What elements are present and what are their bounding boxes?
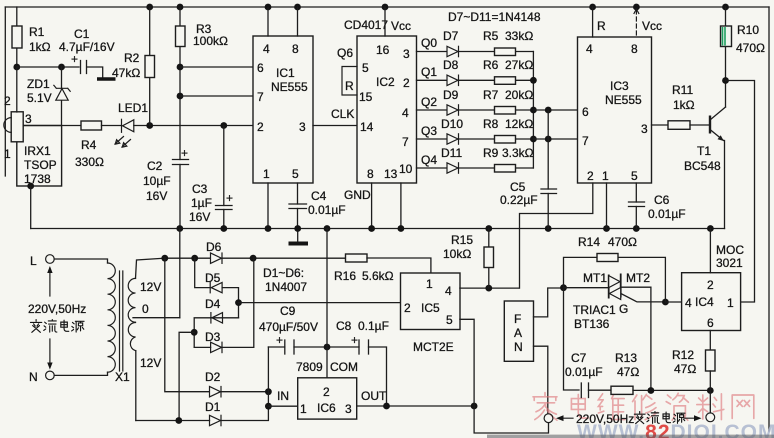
- resistor R8: [483, 117, 533, 143]
- svg-text:20kΩ: 20kΩ: [505, 88, 533, 102]
- svg-text:4.7µF/16V: 4.7µF/16V: [59, 40, 115, 54]
- svg-text:D3: D3: [205, 330, 221, 344]
- svg-text:F: F: [514, 312, 521, 326]
- svg-text:4: 4: [402, 106, 409, 120]
- wire: [690, 124, 710, 126]
- wire Q0 row: [417, 51, 534, 53]
- diode D6: [206, 240, 222, 263]
- svg-text:NE555: NE555: [605, 93, 642, 107]
- wire: [267, 7, 269, 36]
- node (R3 top on Vcc): [177, 4, 184, 11]
- svg-text:4: 4: [263, 42, 270, 56]
- resistor R11: [668, 83, 695, 129]
- svg-text:4: 4: [445, 284, 452, 298]
- svg-text:220V,50Hz: 220V,50Hz: [576, 412, 634, 426]
- svg-text:Q3: Q3: [421, 124, 437, 138]
- svg-text:C4: C4: [311, 189, 327, 203]
- wire IC1 pin1 to gnd: [267, 183, 269, 229]
- svg-text:0.01µF: 0.01µF: [648, 207, 686, 221]
- svg-text:C7: C7: [571, 351, 587, 365]
- svg-text:47Ω: 47Ω: [674, 362, 696, 376]
- wire 0-tap to gnd bus: [179, 229, 181, 318]
- svg-text:LED1: LED1: [118, 101, 148, 115]
- resistor R15: [443, 229, 494, 289]
- wire IC4 pin2 to gnd bus: [709, 229, 711, 273]
- wire gnd stub: [297, 229, 299, 242]
- svg-text:10kΩ: 10kΩ: [443, 247, 471, 261]
- svg-text:R13: R13: [615, 351, 637, 365]
- svg-text:100kΩ: 100kΩ: [193, 34, 228, 48]
- node (R12 bottom): [707, 387, 714, 394]
- svg-text:330Ω: 330Ω: [75, 155, 104, 169]
- svg-text:0: 0: [142, 302, 149, 316]
- wire D3 row: [194, 258, 254, 347]
- svg-text:GND: GND: [344, 188, 371, 202]
- svg-text:10µF: 10µF: [143, 174, 171, 188]
- svg-text:12V: 12V: [140, 280, 161, 294]
- svg-text:BT136: BT136: [574, 317, 610, 331]
- svg-text:MT2: MT2: [626, 271, 650, 285]
- svg-text:Q0: Q0: [421, 36, 437, 50]
- svg-text:2: 2: [707, 278, 714, 292]
- svg-text:3: 3: [25, 112, 32, 126]
- wire Q2 row: [417, 109, 534, 111]
- svg-text:R5: R5: [483, 29, 499, 43]
- node (pin7 junction): [177, 93, 184, 100]
- wire IC4 pin6 to R12: [709, 331, 711, 351]
- svg-text:4: 4: [685, 296, 692, 310]
- svg-text:1: 1: [727, 296, 734, 310]
- svg-text:D4: D4: [205, 297, 221, 311]
- wire top tap rail: [165, 257, 346, 259]
- svg-text:R: R: [345, 79, 354, 93]
- wire: [297, 7, 299, 36]
- node (R10 top Vcc): [722, 4, 729, 11]
- mains source label with arrows: [28, 266, 86, 370]
- svg-text:R2: R2: [124, 51, 140, 65]
- svg-text:1: 1: [426, 277, 433, 291]
- wire: [589, 389, 612, 391]
- svg-text:C5: C5: [510, 180, 526, 194]
- reset box R (IC2 pins 5-15): [337, 46, 357, 95]
- svg-text:C1: C1: [74, 27, 90, 41]
- node (C5 line pin7): [545, 136, 552, 143]
- svg-text:D1~D6:: D1~D6:: [263, 266, 304, 280]
- svg-text:0.1µF: 0.1µF: [358, 319, 389, 333]
- svg-text:IC1: IC1: [276, 66, 295, 80]
- node (C5 top): [545, 107, 552, 114]
- svg-text:R1: R1: [29, 25, 45, 39]
- diode D4: [205, 297, 223, 323]
- svg-text:CD4017: CD4017: [344, 18, 388, 32]
- svg-text:R10: R10: [737, 23, 759, 37]
- svg-text:CLK: CLK: [331, 107, 354, 121]
- node (R3 to IC1 pin6 wire): [177, 64, 184, 71]
- svg-text:0.01µF: 0.01µF: [308, 203, 346, 217]
- svg-text:IC2: IC2: [376, 75, 395, 89]
- svg-text:+: +: [276, 333, 283, 347]
- svg-text:470Ω: 470Ω: [736, 41, 765, 55]
- node (MT2 bottom): [648, 387, 655, 394]
- ground (main): [289, 242, 309, 246]
- ground: [97, 77, 116, 80]
- svg-text:D2: D2: [205, 370, 221, 384]
- svg-text:Vcc: Vcc: [642, 19, 662, 33]
- capacitor C3: [189, 126, 233, 229]
- resistor R10 (green tinted): [721, 7, 766, 107]
- wire gate: [622, 294, 666, 302]
- transformer X1 core: [120, 271, 123, 371]
- capacitor C5: [500, 110, 557, 229]
- regulator IC6 7809: [296, 360, 358, 419]
- diode D2: [205, 370, 221, 397]
- svg-text:OUT: OUT: [361, 389, 387, 403]
- svg-text:6: 6: [582, 105, 589, 119]
- wire IC3 pin3: [652, 124, 669, 126]
- node (IC1 pin4 Vcc): [265, 4, 272, 11]
- svg-text:C9: C9: [280, 304, 296, 318]
- svg-text:T1: T1: [697, 144, 711, 158]
- svg-text:+: +: [71, 52, 78, 66]
- wire junction to bottom rail: [179, 332, 194, 420]
- net label D1~D6 1N4007: [263, 266, 307, 294]
- svg-text:470µF/50V: 470µF/50V: [259, 320, 318, 334]
- svg-text:X1: X1: [115, 370, 130, 384]
- wire pin3 line: [23, 125, 81, 127]
- resistor R7: [483, 88, 533, 114]
- svg-text:1N4007: 1N4007: [265, 280, 307, 294]
- diode D7: [443, 29, 459, 57]
- resistor R9: [483, 146, 534, 172]
- wire IC3 pin2 to opto: [520, 183, 593, 288]
- svg-text:C2: C2: [147, 159, 163, 173]
- svg-text:8: 8: [631, 42, 638, 56]
- svg-text:2: 2: [257, 120, 264, 134]
- terminal mains N (bottom right): [706, 413, 715, 422]
- wire IC5 pin5 to OUT: [460, 319, 474, 406]
- wire IC1 pin7: [180, 95, 253, 97]
- capacitor C2: [143, 146, 189, 229]
- svg-text:3: 3: [641, 122, 648, 136]
- svg-text:Q1: Q1: [421, 65, 437, 79]
- svg-text:L: L: [30, 254, 37, 268]
- node (R2 bottom): [146, 122, 153, 129]
- wire Q3 row: [417, 138, 534, 140]
- svg-text:47kΩ: 47kΩ: [112, 66, 140, 80]
- svg-text:R8: R8: [483, 117, 499, 131]
- resistor R13: [611, 351, 639, 394]
- svg-text:2: 2: [404, 301, 411, 315]
- svg-text:+: +: [181, 146, 188, 160]
- wire Q1 row: [417, 79, 534, 81]
- svg-text:16: 16: [376, 43, 390, 57]
- wire FAN bottom to mains L: [534, 346, 548, 413]
- fan load FAN: [504, 301, 533, 361]
- wire MT1: [564, 287, 609, 289]
- svg-text:2: 2: [4, 94, 11, 108]
- svg-text:Q4: Q4: [421, 153, 437, 167]
- svg-text:16V: 16V: [146, 189, 167, 203]
- svg-text:1kΩ: 1kΩ: [29, 40, 51, 54]
- wire FAN top to triac MT1 line: [534, 288, 564, 317]
- svg-text:D7~D11=1N4148: D7~D11=1N4148: [448, 10, 541, 24]
- svg-text:470Ω: 470Ω: [608, 235, 637, 249]
- node (OUT to bottom link): [471, 403, 478, 410]
- svg-text:MOC: MOC: [716, 243, 744, 257]
- wire D5 right leg: [222, 288, 238, 318]
- node (D2 branch): [161, 255, 168, 262]
- svg-text:6: 6: [257, 61, 264, 75]
- svg-text:1: 1: [263, 167, 270, 181]
- wire R16 to IC5 pin1: [367, 258, 431, 273]
- wire Vcc dashed to IC3 pin8: [635, 10, 637, 37]
- wire MT2: [621, 287, 651, 390]
- diode D9: [443, 88, 459, 115]
- svg-text:14: 14: [360, 120, 374, 134]
- LED LED1: [115, 101, 148, 147]
- svg-text:N: N: [514, 340, 523, 354]
- wire: [134, 125, 253, 127]
- svg-text:D1: D1: [205, 400, 221, 414]
- svg-text:10: 10: [399, 162, 413, 176]
- svg-text:IN: IN: [277, 389, 289, 403]
- svg-text:6: 6: [707, 316, 714, 330]
- svg-text:C3: C3: [192, 182, 208, 196]
- svg-text:D9: D9: [443, 88, 459, 102]
- svg-text:+: +: [351, 333, 358, 347]
- svg-text:D6: D6: [206, 240, 222, 254]
- wire collector to IC4 pin1: [726, 81, 755, 303]
- svg-text:R14: R14: [578, 235, 600, 249]
- resistor R4: [75, 121, 104, 169]
- svg-text:1µF: 1µF: [191, 196, 212, 210]
- IR receiver IRX1 TSOP1738: [4, 67, 62, 186]
- svg-text:Vcc: Vcc: [391, 19, 411, 33]
- svg-text:0.22µF: 0.22µF: [500, 193, 538, 207]
- capacitor C6: [629, 183, 686, 229]
- wire IC3 pin4: [592, 7, 594, 37]
- wire D2 out: [221, 391, 268, 393]
- capacitor C4: [289, 183, 346, 229]
- svg-text:MCT2E: MCT2E: [413, 340, 454, 354]
- unreg rail / C9 C8 line: [268, 347, 386, 406]
- wire IC3 pin1: [606, 183, 608, 229]
- svg-text:12V: 12V: [140, 356, 161, 370]
- wire IC2 pin13 to gnd: [400, 183, 402, 229]
- node (gate/R14/IC4 pin4): [662, 299, 669, 306]
- wire D4 left leg: [194, 318, 238, 348]
- svg-text:D5: D5: [205, 271, 221, 285]
- svg-text:IRX1: IRX1: [24, 144, 51, 158]
- svg-text:ZD1: ZD1: [27, 77, 50, 91]
- wire CLK: [313, 125, 357, 127]
- diode D5: [205, 271, 222, 293]
- svg-text:33kΩ: 33kΩ: [505, 29, 533, 43]
- transformer X1 primary: [54, 259, 115, 375]
- node (R15 bottom): [485, 285, 492, 292]
- node (R2 top on Vcc): [146, 4, 153, 11]
- wire IRX1 to ground bus: [30, 186, 32, 229]
- wire IC5 pin4 line: [460, 287, 519, 289]
- svg-text:3.3kΩ: 3.3kΩ: [502, 146, 534, 160]
- node (D3 anode junction): [191, 329, 198, 336]
- svg-text:NE555: NE555: [271, 80, 308, 94]
- svg-text:BC548: BC548: [684, 159, 721, 173]
- svg-text:R9: R9: [483, 146, 499, 160]
- wire OUT line: [357, 405, 474, 407]
- wire to D2: [165, 258, 210, 392]
- capacitor C9: [259, 304, 318, 354]
- wire: [102, 125, 122, 127]
- diode D11: [441, 146, 462, 173]
- svg-text:R16: R16: [334, 269, 356, 283]
- capacitor C7: [565, 351, 603, 398]
- svg-text:7: 7: [257, 90, 264, 104]
- scan edge band bottom right: [487, 435, 774, 438]
- diode D1: [205, 400, 221, 426]
- svg-text:5: 5: [631, 169, 638, 183]
- svg-text:5.1V: 5.1V: [27, 91, 52, 105]
- svg-text:C8: C8: [336, 319, 352, 333]
- diode D10: [441, 117, 463, 144]
- svg-text:1: 1: [4, 147, 11, 161]
- svg-text:D7: D7: [443, 29, 459, 43]
- svg-text:13: 13: [384, 167, 398, 181]
- node (IC1 pin8 Vcc): [294, 4, 301, 11]
- terminal L: [30, 254, 54, 268]
- timer IC3 NE555: [578, 37, 652, 183]
- svg-text:0.01µF: 0.01µF: [565, 365, 603, 379]
- counter IC2 CD4017: [344, 18, 417, 183]
- resistor R5: [483, 29, 533, 56]
- resistor R12: [672, 348, 715, 391]
- wire to IC3 pin7: [533, 138, 577, 140]
- wire R13 to R12 node: [633, 389, 710, 391]
- resistor R3: [176, 7, 229, 160]
- svg-text:R4: R4: [81, 138, 97, 152]
- svg-text:TRIAC1: TRIAC1: [573, 303, 616, 317]
- wire to mains N terminal: [709, 391, 711, 413]
- optocoupler IC5 MCT2E: [401, 273, 461, 354]
- triac TRIAC1 BT136: [573, 271, 650, 331]
- svg-text:Q2: Q2: [421, 95, 437, 109]
- svg-text:5: 5: [292, 167, 299, 181]
- svg-text:IC6: IC6: [317, 401, 336, 415]
- svg-text:D11: D11: [441, 146, 462, 160]
- svg-text:8: 8: [292, 42, 299, 56]
- svg-text:12kΩ: 12kΩ: [505, 117, 533, 131]
- svg-text:27kΩ: 27kΩ: [505, 58, 533, 72]
- svg-text:15: 15: [359, 90, 373, 104]
- wire Q4 row: [417, 167, 534, 169]
- svg-text:MT1: MT1: [583, 271, 607, 285]
- svg-text:1: 1: [300, 402, 307, 416]
- terminal N: [29, 370, 54, 384]
- wire C7 column: [564, 288, 580, 390]
- node (C3 top): [220, 122, 227, 129]
- svg-text:Q6: Q6: [337, 46, 353, 60]
- svg-text:7: 7: [582, 134, 589, 148]
- wire: [17, 66, 79, 68]
- svg-text:A: A: [514, 326, 522, 340]
- svg-text:R11: R11: [672, 83, 693, 97]
- svg-text:D10: D10: [441, 117, 463, 131]
- node (neg rail junction): [235, 299, 242, 306]
- wire neg rail to IC5 pin2: [239, 302, 401, 304]
- svg-text:COM: COM: [330, 360, 358, 374]
- svg-text:D8: D8: [443, 58, 459, 72]
- transistor T1 BC548: [684, 107, 726, 229]
- svg-text:1: 1: [602, 169, 609, 183]
- resistor R14: [564, 235, 666, 302]
- node (triac MT1 net): [560, 284, 567, 291]
- svg-text:7: 7: [402, 135, 409, 149]
- node (T1 collector branch): [722, 77, 729, 84]
- node (IN rail to IC6): [265, 403, 272, 410]
- svg-text:7809: 7809: [296, 360, 323, 374]
- wire to IC4 pin4: [665, 301, 681, 303]
- wire: [88, 67, 103, 78]
- wire IC2 pin8 to gnd: [371, 183, 373, 229]
- resistor R2: [112, 7, 155, 126]
- terminal mains L (bottom): [544, 414, 553, 423]
- op-amp timer IC1 NE555: [253, 36, 313, 183]
- node dots on summing column: [530, 77, 537, 143]
- svg-text:2: 2: [587, 169, 594, 183]
- svg-text:16V: 16V: [189, 210, 210, 224]
- wire bottom link to mains L terminal: [474, 406, 548, 433]
- node (gnd column on C9 line): [324, 344, 331, 351]
- node (ZD1 top): [58, 64, 65, 71]
- resistor R1: [12, 7, 51, 67]
- wire to IC3 pin6: [533, 109, 577, 111]
- svg-text:+: +: [226, 191, 233, 205]
- node A (R1/ZD1/C1 junction): [13, 64, 20, 71]
- svg-text:R: R: [597, 19, 606, 33]
- svg-text:IC3: IC3: [610, 79, 629, 93]
- svg-text:TSOP: TSOP: [24, 158, 57, 172]
- wire gnd column to IC6 pin2: [326, 229, 328, 378]
- svg-text:47Ω: 47Ω: [617, 365, 639, 379]
- svg-text:R6: R6: [483, 58, 499, 72]
- capacitor C1: [59, 27, 115, 74]
- svg-text:3: 3: [299, 120, 306, 134]
- node (bottom tap junction): [175, 417, 182, 424]
- wire IC1 pin6: [180, 66, 253, 68]
- svg-text:2: 2: [403, 76, 410, 90]
- svg-text:5: 5: [446, 313, 453, 327]
- optotriac IC4 MOC3021: [682, 243, 745, 331]
- svg-text:N: N: [29, 370, 38, 384]
- svg-text:C6: C6: [654, 193, 670, 207]
- resistor R6: [483, 58, 533, 84]
- wire IN: [268, 405, 297, 407]
- svg-text:5.6kΩ: 5.6kΩ: [362, 269, 394, 283]
- node (D5 branch): [191, 255, 198, 262]
- capacitor C8: [336, 319, 389, 354]
- svg-text:IC4: IC4: [695, 295, 714, 309]
- wire: [61, 67, 63, 126]
- svg-text:5: 5: [362, 61, 369, 75]
- svg-text:IC5: IC5: [421, 301, 440, 315]
- node dots on gnd bus: [176, 225, 713, 232]
- node (IC2 pin16 Vcc): [382, 4, 389, 11]
- node (IRX1 pin1 to gnd): [27, 183, 34, 190]
- diode D8: [443, 58, 459, 86]
- zener ZD1: [27, 77, 70, 105]
- svg-text:4: 4: [586, 42, 593, 56]
- wire: [384, 7, 386, 36]
